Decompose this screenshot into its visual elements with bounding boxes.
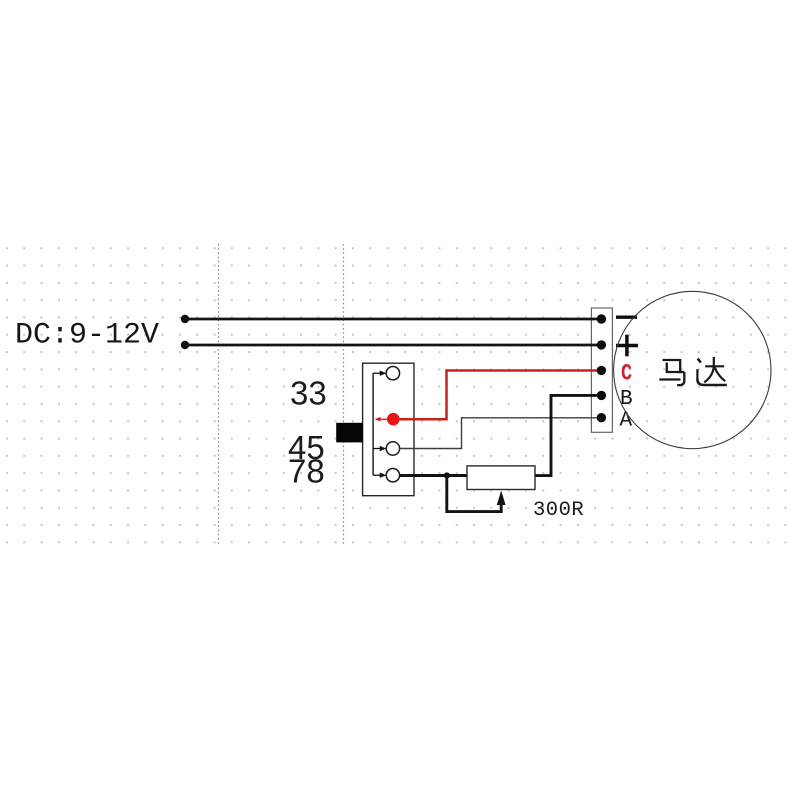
svg-text:33: 33 [290,375,327,412]
switch SW1 position-1 contact circle [386,367,399,380]
label pin - [616,316,637,319]
switch SW1 position-1 arm arrow [373,371,386,376]
switch SW1 position-3 contact circle [386,442,399,455]
pin A [597,413,606,422]
wire: switch position-4 to potentiometer left terminal [399,474,467,477]
pin + [597,340,606,349]
wire thin: switch position-3 to pin A [399,418,601,449]
pin C [597,366,606,375]
svg-text:B: B [620,388,633,411]
svg-text:DC:9-12V: DC:9-12V [15,319,159,353]
wire: potentiometer right terminal to pin B [535,395,602,475]
connector J1 body [591,308,612,432]
switch SW1 body [363,363,414,496]
switch SW1 position-2 red arrow [375,417,388,422]
wire supply negative to pin - [185,318,601,321]
switch SW1 position-4 contact circle [386,469,399,482]
wire: junction to potentiometer wiper [447,476,501,512]
switch SW1 position-4 arm arrow [373,473,386,478]
wire supply positive to pin + [185,344,601,347]
label pin + [616,335,638,357]
pin B [597,391,606,400]
pin - [597,314,606,323]
wire red: switch position-2 to pin C [400,371,603,420]
switch SW1 common bus [372,373,374,475]
switch SW1 actuator [336,423,363,443]
switch SW1 position-3 arm arrow [373,446,386,451]
potentiometer R1 body [467,466,535,490]
motor M1 outline [614,291,771,448]
node supply positive terminal dot [181,341,189,349]
node supply negative terminal dot [181,315,189,323]
potentiometer wiper arrow [497,491,506,505]
svg-text:78: 78 [288,453,325,490]
node junction on position-4 wire [444,472,450,478]
svg-text:300R: 300R [533,499,584,522]
svg-text:C: C [621,362,632,387]
switch SW1 position-2 selected contact (red) [387,413,400,426]
motor label 马达 (drawn glyphs) [659,357,727,385]
